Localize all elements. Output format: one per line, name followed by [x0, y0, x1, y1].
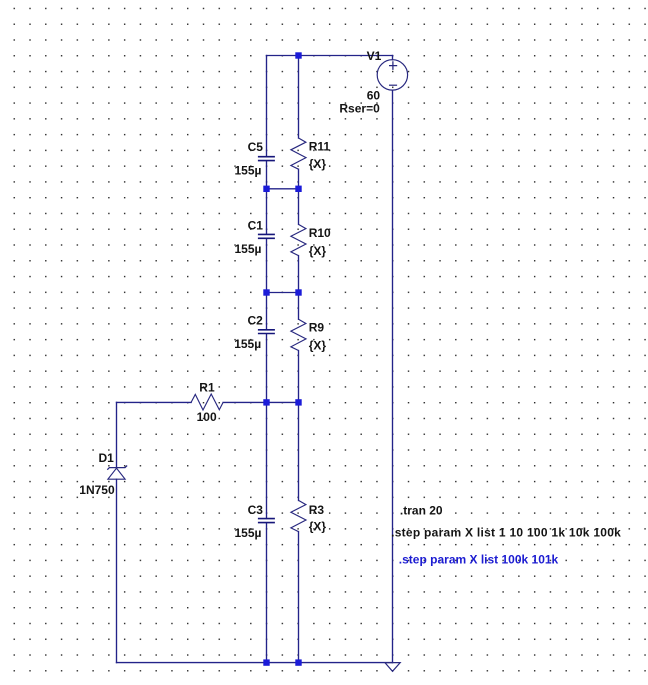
- wire V1 bottom to ground: [392, 90, 394, 662]
- wire D1 bottom lead: [116, 479, 118, 662]
- junction node2 right: [295, 289, 301, 295]
- V1 plus sign: [389, 61, 397, 70]
- junction top node: [295, 52, 301, 58]
- svg-text:C5: C5: [248, 140, 264, 154]
- svg-text:100: 100: [197, 410, 217, 424]
- V1 minus sign: [389, 84, 397, 86]
- svg-text:155µ: 155µ: [235, 242, 262, 256]
- diode D1 triangle: [108, 468, 125, 479]
- wire row node2: [267, 292, 299, 294]
- wire R11 to R10: [298, 169, 300, 224]
- resistor R9 zigzag: [291, 319, 306, 350]
- svg-text:{X}: {X}: [309, 157, 327, 171]
- junction node3 right: [295, 399, 301, 405]
- svg-text:Rser=0: Rser=0: [339, 101, 380, 115]
- svg-text:{X}: {X}: [309, 339, 327, 353]
- svg-text:R3: R3: [309, 503, 325, 517]
- wire R1 right lead: [223, 401, 298, 403]
- junction node2 left: [263, 289, 269, 295]
- capacitor C1 plates: [258, 234, 275, 238]
- svg-text:155µ: 155µ: [234, 337, 261, 351]
- junction node1 left: [263, 186, 269, 192]
- wire V1 top stub: [392, 56, 394, 60]
- svg-text:R11: R11: [309, 139, 331, 153]
- svg-text:R1: R1: [199, 380, 215, 394]
- op V1 circle: [377, 60, 407, 90]
- wire row node1: [267, 188, 299, 190]
- svg-text:R10: R10: [309, 226, 331, 240]
- wire R1 left lead: [117, 401, 192, 403]
- wire res column R11 top lead: [298, 56, 300, 139]
- svg-text:C3: C3: [248, 503, 264, 517]
- svg-text:.step param X list 100k 101k: .step param X list 100k 101k: [399, 552, 559, 566]
- wire top horizontal: [267, 55, 393, 57]
- resistor R10 zigzag: [291, 224, 306, 255]
- svg-text:.step param X list 1 10 100 1k: .step param X list 1 10 100 1k 10k 100k: [391, 525, 621, 539]
- svg-text:{X}: {X}: [309, 244, 327, 258]
- diode D1 zener bar: [107, 466, 127, 470]
- wire C5 to C1: [266, 161, 268, 234]
- svg-text:C2: C2: [248, 313, 264, 327]
- svg-text:1N750: 1N750: [79, 483, 115, 497]
- wire R10 to R9: [298, 256, 300, 320]
- wire C1 to C2: [266, 239, 268, 330]
- junction node3 left: [263, 399, 269, 405]
- junction node1 right: [295, 186, 301, 192]
- resistor R11 zigzag: [291, 138, 306, 169]
- svg-text:155µ: 155µ: [235, 163, 262, 177]
- wire cap column C5 top lead: [266, 56, 268, 157]
- svg-text:{X}: {X}: [309, 520, 327, 534]
- ground symbol: [385, 663, 400, 672]
- svg-text:D1: D1: [99, 451, 115, 465]
- capacitor C5 plates: [258, 157, 275, 161]
- resistor R1 zigzag: [191, 394, 223, 410]
- resistor R3 zigzag: [291, 500, 306, 531]
- svg-text:R9: R9: [309, 321, 325, 335]
- wire R3 to bottom: [298, 532, 300, 663]
- svg-text:155µ: 155µ: [235, 526, 262, 540]
- junction bottom left: [263, 659, 269, 665]
- junction bottom right: [295, 659, 301, 665]
- wire left column D1 top lead: [116, 402, 118, 467]
- capacitor C3 plates: [258, 519, 275, 523]
- svg-text:C1: C1: [248, 219, 264, 233]
- wire bottom horizontal: [117, 662, 393, 664]
- wire C3 to bottom: [266, 523, 268, 663]
- wire C2 to C3: [266, 334, 268, 519]
- capacitor C2 plates: [258, 330, 275, 334]
- svg-text:.tran 20: .tran 20: [400, 503, 443, 517]
- svg-text:V1: V1: [367, 49, 382, 63]
- wire R9 to R3: [298, 351, 300, 501]
